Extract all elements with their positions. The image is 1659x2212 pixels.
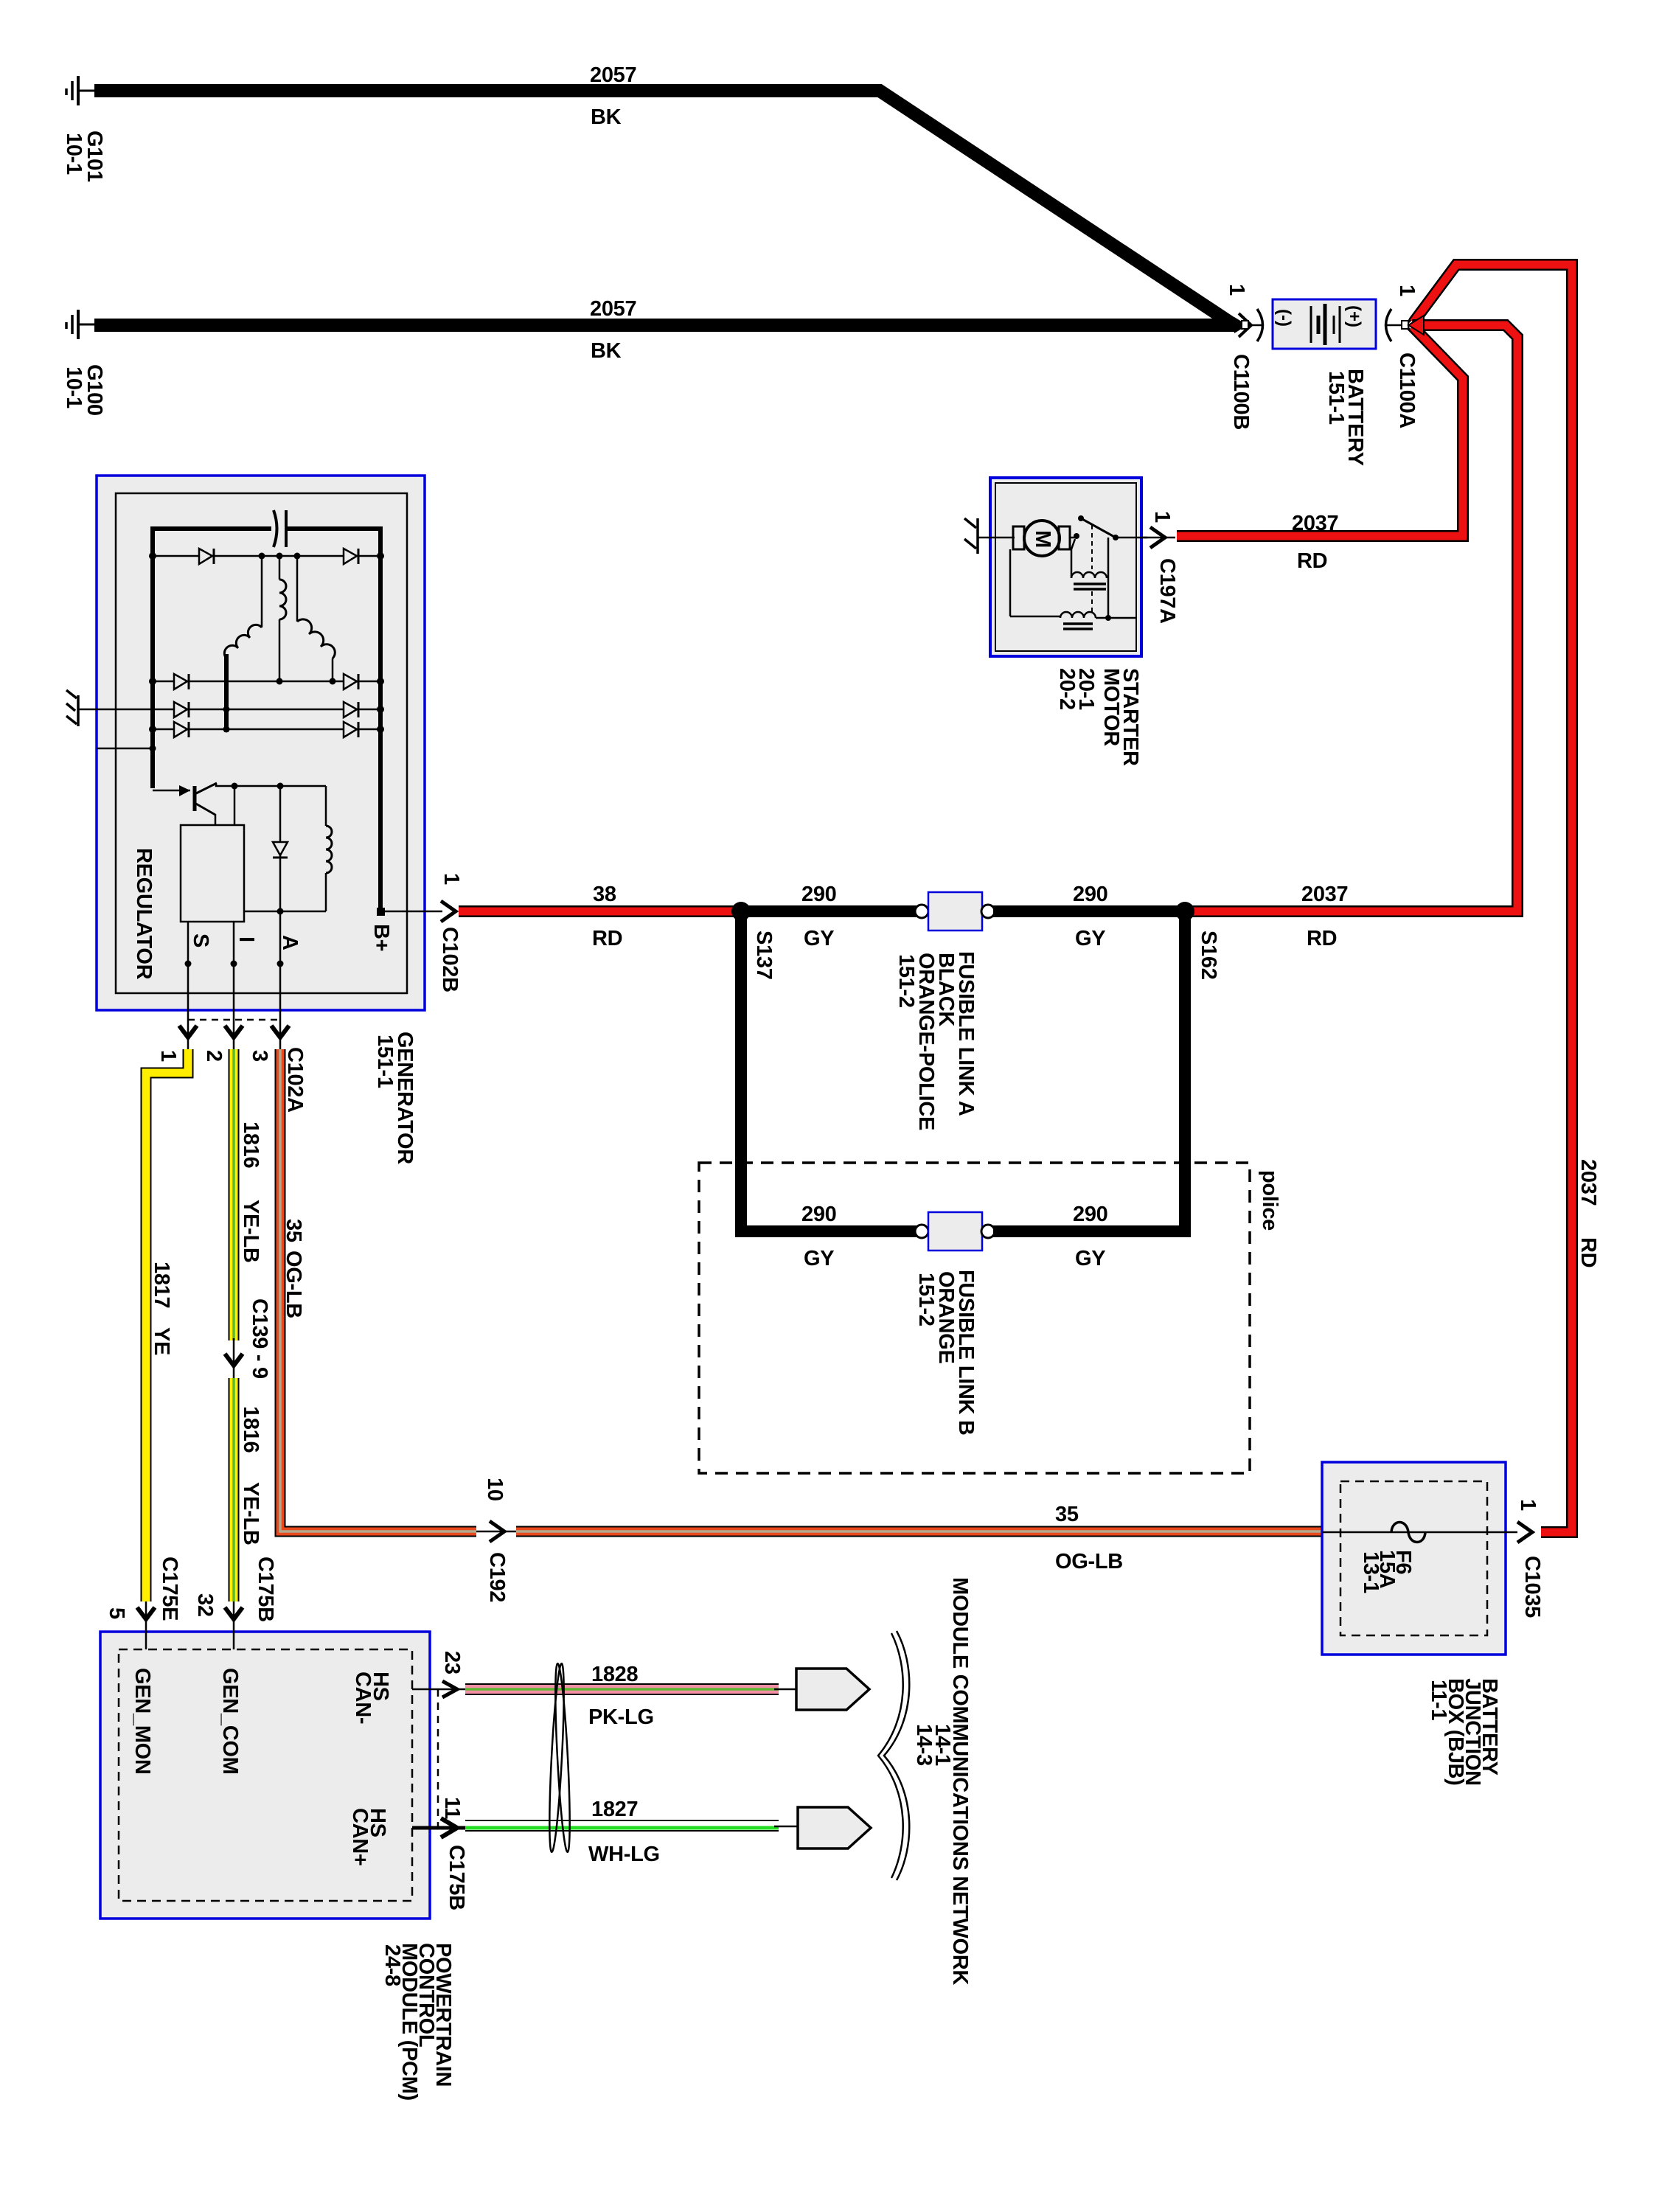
wire 290 GY (fusible link A to S162) [993, 883, 1185, 950]
svg-text:WH-LG: WH-LG [588, 1843, 660, 1866]
svg-text:11-1: 11-1 [1427, 1680, 1450, 1720]
svg-text:1: 1 [1516, 1499, 1540, 1511]
label POWERTRAIN CONTROL MODULE (PCM) 24-8 [380, 1943, 455, 2101]
wire 1817 YE (generator S to PCM GEN_MON) [146, 1049, 188, 1601]
connector C1100A (battery positive terminal) [1385, 285, 1419, 428]
field winding (rotor coil) [326, 786, 332, 911]
svg-text:38: 38 [593, 883, 616, 906]
solenoid hold-in coil (inside starter) [1060, 538, 1136, 629]
svg-text:290: 290 [1073, 1203, 1108, 1226]
svg-text:BK: BK [591, 105, 622, 129]
stator winding taps [262, 556, 297, 627]
svg-text:35: 35 [282, 1219, 305, 1242]
svg-text:OG-LB: OG-LB [1055, 1550, 1123, 1573]
svg-text:PK-LG: PK-LG [588, 1705, 654, 1729]
wire 290 GY (fusible link B to S162) [993, 911, 1185, 1270]
label GENERATOR 151-1 [373, 1032, 417, 1164]
svg-text:GY: GY [1075, 927, 1105, 950]
label BATTERY JUNCTION BOX (BJB) 11-1 [1427, 1678, 1501, 1786]
starter motor 20-1 20-2 [990, 478, 1141, 656]
svg-text:C139 - 9: C139 - 9 [248, 1298, 271, 1379]
wire 1816 YE-LB (generator I to C139-9) [234, 1049, 262, 1340]
battery 151-1 [1273, 299, 1376, 349]
svg-text:C175B: C175B [445, 1845, 468, 1910]
connector C175B (into PCM, pin 32) [193, 1557, 277, 1649]
off-page connector (CAN-) [796, 1669, 869, 1710]
svg-text:1827: 1827 [591, 1798, 638, 1821]
pin A wire [277, 911, 302, 1049]
svg-text:CAN-: CAN- [351, 1672, 375, 1724]
svg-text:GY: GY [1075, 1247, 1105, 1270]
wire 2037 RD (battery to S162 middle trunk) [1188, 325, 1517, 911]
diode (top left) [199, 549, 214, 564]
svg-text:14-3: 14-3 [912, 1724, 936, 1766]
label 2037 RD (right trunk, rotated) [1576, 1159, 1600, 1267]
ground (starter motor) [964, 518, 995, 554]
svg-text:290: 290 [801, 1203, 837, 1226]
svg-text:(-): (-) [1274, 309, 1294, 327]
battery junction box (BJB) [1322, 1462, 1506, 1655]
svg-text:RD: RD [1297, 549, 1327, 573]
regulator box [181, 825, 244, 922]
bus B+ (thick internal bus) [153, 529, 380, 911]
off-page connector (CAN+) [798, 1807, 871, 1848]
svg-text:YE-LB: YE-LB [239, 1482, 262, 1545]
svg-text:CAN+: CAN+ [348, 1808, 372, 1866]
label REGULATOR [132, 848, 156, 980]
PCM pin labels [131, 1668, 392, 1866]
pin S wire [185, 922, 213, 1049]
svg-text:REGULATOR: REGULATOR [132, 848, 156, 980]
connector C192 [476, 1478, 518, 1602]
wire (collector rail) [216, 783, 326, 826]
diode (line 2 right) [344, 674, 358, 689]
connector C1035 [1516, 1499, 1544, 1618]
svg-text:B+: B+ [369, 924, 393, 951]
motor M (inside starter) [995, 521, 1070, 556]
diode (line 2 left) [174, 674, 189, 689]
wire 35 OG-LB (C192 to BJB) [516, 1503, 1322, 1573]
svg-text:S162: S162 [1197, 931, 1220, 980]
wire (motor to hold-in coil, inside starter) [1010, 549, 1060, 616]
label G101 10-1 [62, 131, 106, 182]
svg-text:YE: YE [150, 1327, 173, 1355]
fusible link A [915, 892, 995, 931]
diode (field suppression) [273, 786, 288, 911]
rectifier line 1 [149, 552, 384, 560]
svg-text:290: 290 [801, 883, 837, 906]
wire (case lead into box) [97, 745, 156, 752]
svg-text:C175E: C175E [158, 1557, 181, 1621]
diode (line 4 right) [344, 722, 358, 737]
wire 2037 RD (battery to BJB via right side trunk) [1413, 265, 1572, 1532]
svg-text:RD: RD [1307, 927, 1337, 950]
svg-text:C197A: C197A [1155, 558, 1179, 624]
splice S137 [731, 902, 776, 980]
svg-text:C102A: C102A [283, 1047, 307, 1113]
svg-text:1: 1 [439, 873, 463, 885]
stator winding (middle coil) [279, 580, 286, 681]
ground (generator case) [66, 690, 78, 726]
label STARTER MOTOR 20-1 20-2 [1055, 668, 1142, 766]
connector C197A [1141, 511, 1179, 624]
svg-text:2037: 2037 [1292, 512, 1338, 535]
svg-text:2057: 2057 [590, 63, 636, 87]
wire (regulator to field) [244, 908, 326, 915]
svg-text:2037: 2037 [1301, 883, 1348, 906]
svg-text:MODULE COMMUNICATIONS NETWORK: MODULE COMMUNICATIONS NETWORK [948, 1577, 972, 1985]
svg-text:I: I [234, 936, 258, 942]
svg-text:5: 5 [105, 1607, 128, 1619]
wire 1828 PK-LG (HS CAN-) [465, 1663, 798, 1729]
wire 1816 YE-LB (C139-9 to PCM GEN_COM) [234, 1378, 262, 1601]
svg-text:(+): (+) [1344, 305, 1364, 327]
label FUSIBLE LINK A BLACK ORANGE-POLICE 151-2 [894, 951, 978, 1130]
connector C175E (into PCM) [105, 1557, 181, 1649]
brace (module communications network) [878, 1631, 954, 1880]
rectifier line 2 [149, 678, 384, 685]
svg-text:A: A [278, 935, 302, 950]
svg-text:YE-LB: YE-LB [239, 1200, 262, 1263]
pin 23 stub (HS CAN-) [412, 1651, 465, 1697]
svg-text:1816: 1816 [239, 1406, 262, 1453]
svg-text:1: 1 [156, 1050, 180, 1062]
svg-text:24-8: 24-8 [380, 1944, 404, 1986]
ground G101 [66, 76, 96, 105]
diode (line 3 right) [344, 702, 358, 717]
wire 2057 BK (from G100 to battery C1100B) [94, 319, 1234, 332]
connector C102B [438, 873, 463, 992]
label MODULE COMMUNICATIONS NETWORK [948, 1577, 972, 1985]
svg-text:11: 11 [440, 1797, 464, 1819]
svg-text:S137: S137 [752, 931, 776, 980]
rectifier line 4 [149, 726, 384, 733]
wire 35 OG-LB (generator A to BJB) [280, 1049, 476, 1531]
splice S162 [1175, 902, 1220, 980]
svg-text:2: 2 [202, 1050, 226, 1062]
label 2037 RD (S162 to battery run) [1301, 883, 1348, 950]
label 2037 RD (starter wire) [1292, 512, 1338, 573]
connector C102A (dashed gang line and arrows) [156, 1020, 307, 1113]
svg-text:13-1: 13-1 [1359, 1551, 1382, 1593]
svg-text:GY: GY [804, 927, 834, 950]
svg-text:C1100A: C1100A [1395, 352, 1419, 428]
svg-text:3: 3 [248, 1050, 271, 1062]
svg-text:10-1: 10-1 [62, 366, 86, 408]
stator winding (left coil) [224, 625, 262, 732]
svg-text:M: M [1031, 530, 1054, 548]
node B+ output [369, 908, 442, 951]
svg-text:1828: 1828 [591, 1663, 638, 1686]
solenoid switch (inside starter) [1070, 515, 1147, 569]
svg-text:RD: RD [592, 927, 622, 950]
wire 2037 RD (battery to starter motor) [1177, 327, 1463, 536]
svg-text:290: 290 [1073, 883, 1108, 906]
svg-text:C1100B: C1100B [1229, 354, 1253, 430]
svg-text:GEN_COM: GEN_COM [218, 1668, 242, 1775]
label G100 10-1 [62, 364, 106, 416]
svg-text:C175B: C175B [254, 1557, 277, 1622]
fuse F6 15A 13-1 [1322, 1523, 1517, 1594]
connector C175B (CAN pins, dashed gang) [438, 1689, 468, 1910]
svg-text:151-2: 151-2 [894, 954, 918, 1008]
svg-text:1: 1 [1150, 511, 1174, 523]
solenoid pull-in coil (inside starter) [1071, 539, 1107, 612]
ground G100 [66, 310, 96, 339]
svg-text:151-1: 151-1 [1324, 371, 1348, 425]
svg-text:23: 23 [440, 1651, 464, 1674]
svg-text:151-1: 151-1 [373, 1034, 397, 1088]
twisted pair symbol [546, 1663, 572, 1852]
capacitor (generator suppression) [274, 510, 286, 547]
rectifier line 3 (to ground) [78, 706, 384, 713]
svg-text:OG-LB: OG-LB [282, 1251, 305, 1318]
svg-text:32: 32 [193, 1593, 217, 1617]
connector C139-9 [225, 1298, 271, 1380]
stator winding (right coil) [297, 619, 336, 685]
svg-text:S: S [189, 933, 212, 947]
svg-text:2057: 2057 [590, 297, 636, 321]
diode (top right) [344, 549, 358, 564]
wire 2057 BK (from G101, horizontal then diagonal to battery) [94, 91, 1234, 325]
wire 1827 WH-LG (HS CAN+) [465, 1798, 799, 1866]
pin I wire [231, 922, 259, 1049]
svg-text:RD: RD [1576, 1237, 1600, 1267]
police dashed box [699, 1163, 1281, 1473]
svg-text:police: police [1258, 1170, 1281, 1231]
svg-text:GY: GY [804, 1247, 834, 1270]
svg-text:C1035: C1035 [1520, 1556, 1544, 1618]
connector C1100B (battery negative terminal) [1225, 284, 1264, 430]
svg-text:GEN_MON: GEN_MON [131, 1668, 154, 1775]
svg-text:10-1: 10-1 [62, 133, 86, 175]
diode (line 4 left) [174, 722, 189, 737]
fusible link B [915, 1212, 995, 1251]
svg-text:1817: 1817 [150, 1262, 173, 1308]
label 2057 BK (upper wire) [590, 63, 636, 129]
label 2057 BK (lower wire) [590, 297, 636, 363]
svg-text:C192: C192 [485, 1552, 509, 1602]
svg-text:35: 35 [1055, 1503, 1079, 1526]
svg-text:10: 10 [483, 1478, 507, 1501]
transistor Q (regulator output) [153, 783, 217, 825]
wire 38 RD (generator B+ to S137) [459, 883, 741, 950]
svg-text:1: 1 [1225, 284, 1248, 296]
diode (line 3 left) [174, 702, 189, 717]
svg-text:BK: BK [591, 339, 622, 363]
generator 151-1 box [97, 476, 425, 1010]
label FUSIBLE LINK B ORANGE 151-2 [914, 1270, 978, 1436]
pin 11 stub (HS CAN+) [412, 1797, 465, 1837]
svg-text:1816: 1816 [239, 1121, 262, 1168]
svg-text:1: 1 [1395, 285, 1419, 296]
svg-text:2037: 2037 [1576, 1159, 1600, 1206]
red arrow tip at battery positive [1408, 316, 1424, 335]
svg-text:151-2: 151-2 [914, 1273, 938, 1326]
powertrain control module (PCM) box [100, 1632, 430, 1919]
svg-text:20-2: 20-2 [1055, 668, 1079, 710]
label BATTERY 151-1 [1324, 369, 1367, 466]
svg-text:C102B: C102B [438, 927, 462, 992]
wire 290 GY (S137 to fusible link A) [741, 883, 917, 950]
wire 290 GY (S137 down to fusible link B) [741, 911, 917, 1270]
svg-text:MOTOR: MOTOR [1099, 668, 1123, 746]
